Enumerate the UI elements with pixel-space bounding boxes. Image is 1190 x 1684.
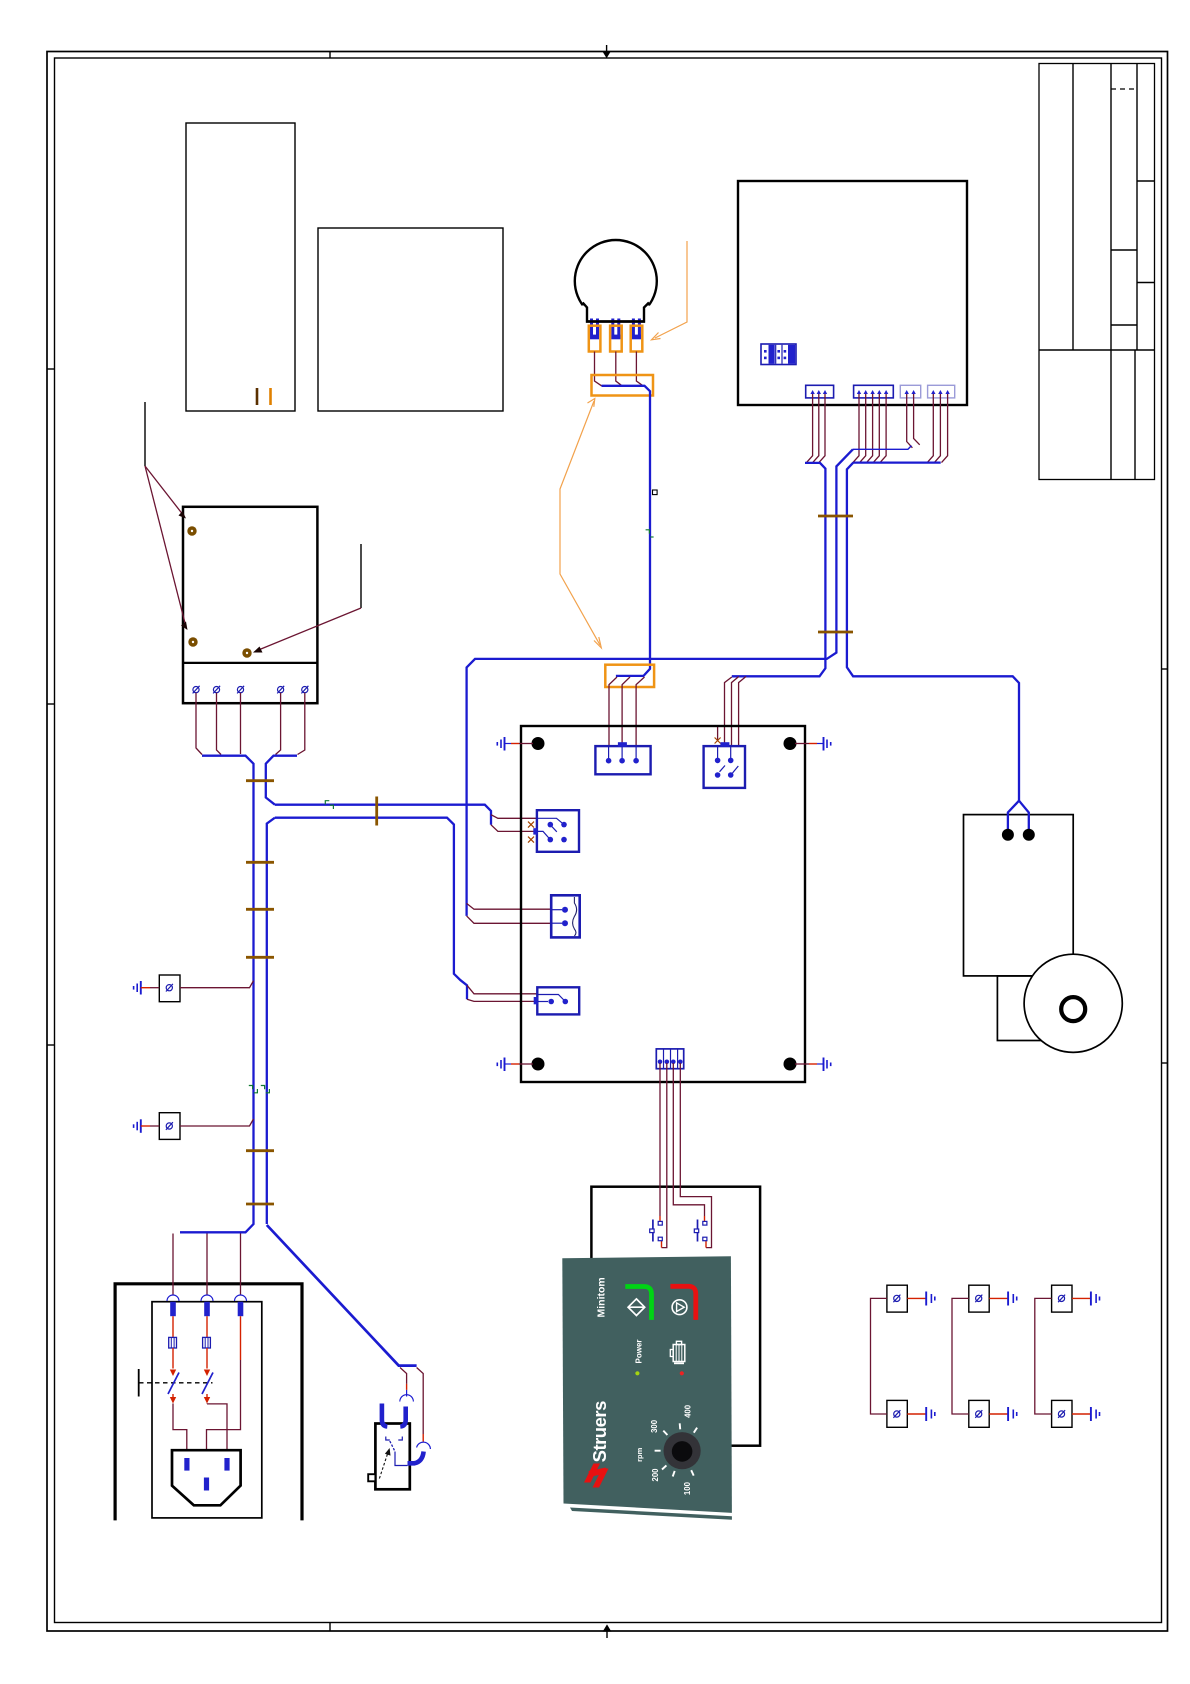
terminal O4	[277, 686, 284, 694]
x mark at K2	[715, 738, 721, 744]
ground at P1 bottom	[907, 1407, 935, 1421]
cable bundle left line	[732, 463, 826, 676]
fuse F2	[203, 1316, 211, 1348]
ground top-right	[795, 737, 831, 751]
green label mark B	[249, 1086, 258, 1093]
wires cable to connector K3	[491, 815, 537, 832]
connector K1	[595, 742, 650, 774]
lamp terminal 1	[589, 319, 601, 352]
wire L3 to plug pin3	[207, 1316, 241, 1476]
cable bundle middle line	[853, 446, 912, 450]
shield loop P2	[952, 1298, 969, 1414]
svg-text:Minitom: Minitom	[596, 1277, 608, 1317]
wire to capacitor box	[1008, 801, 1029, 830]
start arrow green	[625, 1287, 651, 1320]
motor icon	[670, 1341, 685, 1363]
wire lamp cable to X11	[616, 658, 650, 676]
capacitor terminal dots	[1002, 829, 1035, 841]
wire S2 to cable	[180, 1119, 254, 1126]
connector K3	[533, 810, 579, 852]
connector K5	[534, 987, 580, 1014]
shield pair P1 bottom	[887, 1400, 907, 1427]
plug pin 2	[224, 1458, 229, 1471]
terminal O1	[193, 686, 200, 694]
orange callout arrow right	[652, 241, 688, 340]
terminal O2	[213, 686, 220, 694]
wires J2 to cable	[853, 394, 886, 463]
wire drop L3	[240, 1234, 242, 1296]
callout line left	[145, 402, 188, 630]
motor M1	[1024, 954, 1122, 1052]
wire SW1b to plug pin2	[207, 1404, 227, 1456]
wire drop L1	[172, 1234, 174, 1296]
wire O1 to cable	[196, 693, 202, 755]
wires J4 to cable	[927, 394, 947, 463]
microswitch SW2	[650, 1220, 663, 1242]
svg-text:300: 300	[650, 1419, 659, 1433]
shield pair P1 top	[887, 1285, 907, 1312]
wires X11 to K1	[609, 677, 645, 746]
shield pair P3 bottom	[1052, 1400, 1072, 1427]
ground at P1 top	[907, 1292, 935, 1306]
inlet terminal 1	[167, 1295, 179, 1316]
shield loop P3	[1035, 1298, 1052, 1414]
mounting hole bottom-left	[532, 1058, 545, 1071]
lamp LA1 bulb	[575, 240, 657, 325]
orange callout arrow left (double)	[560, 399, 601, 648]
mains enclosure bracket	[115, 1284, 302, 1521]
wire K6-4 to switch SW3	[680, 1063, 711, 1248]
foot switch contacts	[386, 1437, 408, 1466]
mounting hole top-left	[532, 737, 545, 750]
wire O2 to cable	[217, 693, 222, 755]
start button icon	[628, 1299, 645, 1316]
wire S1 to cable	[180, 981, 254, 988]
power LED green	[635, 1371, 639, 1375]
plug outline	[172, 1450, 241, 1505]
svg-text:100: 100	[683, 1481, 692, 1495]
foot switch stub	[368, 1474, 375, 1481]
shield loop P1	[871, 1298, 887, 1414]
connector J2	[854, 385, 894, 398]
x marks at K3	[528, 822, 534, 843]
wire O3 to cable	[240, 693, 242, 754]
cable bundle tie marks	[818, 516, 853, 632]
foot switch arrow	[379, 1448, 390, 1479]
main board A2	[521, 726, 805, 1082]
fuse F1	[169, 1316, 177, 1348]
svg-text:Struers: Struers	[589, 1401, 610, 1462]
lamp wire 1	[595, 352, 602, 386]
plug pin 1	[184, 1458, 189, 1471]
foot switch box	[375, 1424, 409, 1490]
svg-text:200: 200	[651, 1468, 660, 1482]
winding stud C	[242, 648, 251, 657]
lamp wire 3	[636, 352, 643, 386]
ground top-left	[497, 737, 533, 751]
shield box S1 top	[159, 975, 180, 1002]
panel rear box	[591, 1187, 760, 1446]
wires cable to connector K4	[467, 903, 552, 923]
enclosure rectangle right	[318, 228, 503, 411]
svg-text:rpm: rpm	[635, 1447, 644, 1462]
capacitor box C1	[964, 815, 1074, 976]
lamp base line over terminals	[586, 320, 645, 322]
microswitch SW3	[694, 1220, 707, 1242]
callout line right	[253, 544, 361, 653]
ground at P3 bottom	[1072, 1407, 1100, 1421]
wires J3 to cable	[907, 394, 920, 448]
connector K6	[656, 1049, 683, 1069]
foot switch terminal pins	[382, 1404, 424, 1464]
Struers flame mark	[584, 1464, 609, 1488]
control unit box A1	[738, 181, 967, 405]
wire K6-3 to switch SW3	[673, 1063, 704, 1216]
green label mark C	[261, 1086, 270, 1093]
connector J1	[806, 385, 834, 398]
wire K6-2 to switch SW2	[662, 1063, 667, 1248]
shield pair P2 bottom	[969, 1400, 989, 1427]
wire O5 to cable	[298, 693, 305, 755]
cable tie marks	[246, 781, 377, 1204]
wires J1 to cable	[807, 394, 825, 462]
shield box S2	[159, 1113, 180, 1140]
lamp connector X10 (orange)	[592, 375, 654, 396]
winding stud A	[187, 526, 196, 535]
ground at P2 bottom	[989, 1407, 1017, 1421]
lamp cable blue	[602, 386, 651, 658]
wire O4 to cable	[276, 693, 281, 755]
cable to connector J10	[275, 805, 491, 825]
cable to connector J12	[267, 818, 275, 1224]
ground at P3 top	[1072, 1292, 1100, 1306]
node marker square	[653, 490, 658, 495]
inlet terminal 3	[235, 1295, 247, 1316]
shield pair P3 top	[1052, 1285, 1072, 1312]
mounting hole bottom-right	[784, 1058, 797, 1071]
wire K6-1 to switch SW2	[659, 1063, 661, 1216]
cable sheath left vertical	[180, 756, 297, 1233]
terminal O5	[301, 686, 308, 694]
wire SW1a to plug pin1	[173, 1404, 187, 1456]
connector K4	[551, 895, 580, 937]
connector J4	[928, 385, 955, 398]
ground bottom-right	[795, 1058, 831, 1072]
motor mount rect	[997, 976, 1042, 1041]
foot switch wire 1	[400, 1368, 414, 1402]
title block	[1039, 64, 1155, 480]
stop button icon	[672, 1300, 687, 1315]
svg-text:400: 400	[684, 1404, 693, 1418]
foot switch cable	[267, 1225, 417, 1366]
front panel Minitom	[562, 1256, 732, 1520]
switch SW1	[139, 1348, 213, 1404]
enclosure rectangle left	[186, 123, 295, 411]
terminal O3	[237, 686, 244, 694]
wire drop L2	[206, 1234, 208, 1296]
wires cable to connector K5	[467, 985, 537, 1001]
speed knob	[664, 1432, 701, 1469]
connector K2	[704, 742, 745, 788]
ground bottom-left	[497, 1058, 533, 1072]
transformer box T1	[183, 507, 317, 703]
lamp terminal 2	[610, 319, 622, 352]
plug pin 3	[204, 1478, 209, 1491]
lamp terminal 3	[631, 319, 643, 352]
green label mark A	[325, 801, 333, 809]
ground at S2	[134, 1119, 160, 1133]
terminal block TB1	[761, 344, 796, 365]
shield pair P2 top	[969, 1285, 989, 1312]
connector X11 (orange)	[605, 665, 654, 687]
foot switch wire 2	[417, 1368, 431, 1450]
stop arrow red	[670, 1286, 695, 1320]
wires cable to connector K2	[718, 677, 746, 747]
svg-text:Power: Power	[634, 1339, 643, 1363]
ground at P2 top	[989, 1292, 1017, 1306]
winding stud B	[188, 637, 197, 646]
mounting hole top-right	[784, 737, 797, 750]
cable bundle right line	[847, 463, 1019, 801]
motor LED red	[680, 1371, 684, 1375]
lamp wire 2	[616, 352, 622, 386]
green label mark D	[646, 530, 654, 537]
knob scale ticks	[655, 1423, 698, 1476]
mains inlet inner box	[152, 1302, 262, 1518]
connector J3	[900, 385, 920, 398]
inlet terminal 2	[201, 1295, 213, 1316]
ground at S1	[134, 981, 160, 995]
